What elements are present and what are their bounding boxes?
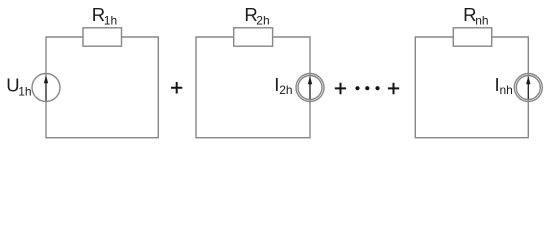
- svg-text:2h: 2h: [256, 14, 269, 28]
- resistor Rnh: [453, 28, 491, 46]
- svg-text:nh: nh: [500, 83, 513, 97]
- resistor R2h: [234, 28, 273, 46]
- svg-text:2h: 2h: [279, 83, 292, 97]
- wire loop 2 outline: [196, 37, 310, 138]
- current source I2h: [296, 74, 324, 102]
- svg-text:nh: nh: [475, 14, 488, 28]
- svg-text:1h: 1h: [104, 14, 117, 28]
- resistor R1h: [83, 28, 122, 46]
- plus operator 2: [335, 83, 346, 95]
- wire loop 1 outline: [46, 37, 158, 138]
- svg-text:1h: 1h: [18, 85, 31, 99]
- voltage source U1h: [32, 74, 60, 102]
- current source Inh: [514, 74, 542, 102]
- plus operator 3: [388, 83, 399, 95]
- plus operator 1: [171, 82, 182, 94]
- wire loop 3 outline: [415, 37, 528, 138]
- ellipsis dots: [355, 86, 379, 90]
